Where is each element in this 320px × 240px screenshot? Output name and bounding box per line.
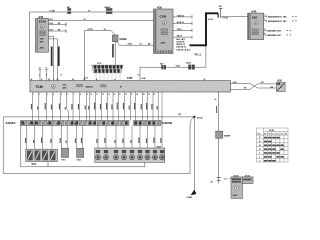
ground wire from strip left to bus [20, 126, 22, 167]
ECM U4/46 module box [36, 16, 49, 52]
svg-text:Y/B X: Y/B X [177, 29, 183, 31]
svg-text:471.1: 471.1 [194, 53, 201, 57]
ECM pin A14 wire down to TCM [48, 36, 53, 80]
svg-text:B15: B15 [49, 30, 52, 32]
svg-text:Pos: Pos [258, 133, 261, 135]
svg-text:S1: S1 [264, 133, 266, 135]
TCM bottom pin ticks and wires to S40 strip [33, 92, 159, 121]
svg-text:18: 18 [140, 44, 142, 46]
strip cell content marks [22, 121, 156, 124]
svg-text:A/56: A/56 [161, 42, 166, 45]
module 4/130 [231, 174, 242, 198]
svg-text:31/6B: 31/6B [187, 197, 193, 199]
TCM top pin labels [31, 75, 206, 81]
svg-text:L1: L1 [273, 133, 275, 135]
svg-text:54OLT: 54OLT [186, 62, 192, 65]
connector 16/39G [112, 35, 118, 42]
ring ground wire loop [3, 117, 194, 174]
TCM bottom pin numbers [33, 93, 155, 96]
wires strip to solenoid box 6/57 [98, 92, 162, 148]
ECM pin A7 wire down to TCM [48, 39, 57, 81]
svg-text:1/C06: 1/C06 [208, 19, 214, 21]
svg-text:S/T1: S/T1 [32, 164, 38, 166]
svg-text:9: 9 [87, 94, 88, 96]
svg-text:C/T x: C/T x [224, 179, 228, 181]
svg-text:10: 10 [90, 94, 92, 96]
CEM 4/56 module box [154, 6, 174, 53]
svg-text:31: 31 [45, 68, 47, 70]
ABS right pin row 2 [264, 20, 267, 23]
module left pin tick [229, 178, 231, 180]
svg-text:13: 13 [108, 94, 110, 96]
svg-text:A4/56-B: A4/56-B [86, 85, 94, 88]
ground stub from 6/57 [144, 162, 146, 167]
TCM top pin ticks [32, 79, 205, 81]
svg-text:11: 11 [96, 94, 98, 96]
svg-text:887: 887 [67, 7, 70, 9]
ground bus wire [21, 166, 145, 168]
connector pair 6/46LP on top wire [105, 6, 113, 14]
connector 8/40NF [216, 131, 223, 138]
svg-text:S4/2: S4/2 [160, 62, 164, 65]
vertical wire colour labels between TCM and S40 [31, 103, 158, 110]
wire 16/39G right to CEM [117, 42, 153, 46]
CEM right pin stub row 1 [173, 15, 192, 19]
ECM pin A21 wire to CEM [48, 19, 153, 21]
speed sensor 7/54 [77, 148, 84, 157]
solenoid box S/T1 [26, 149, 58, 166]
svg-text:4 SB: 4 SB [233, 81, 238, 84]
connector half C09 with off-page tick [219, 8, 223, 17]
svg-text:18: 18 [84, 19, 86, 21]
ground stub from S/T1 [47, 162, 49, 167]
feed branch down to S4 connectors [140, 45, 206, 80]
wire label Y/TD vertical [112, 44, 114, 58]
svg-text:16/39G: 16/39G [119, 39, 127, 41]
wire continues to connector [218, 138, 220, 183]
CEM right pin stub row 3 [173, 29, 192, 33]
svg-text:S1/S2: S1/S2 [269, 130, 274, 132]
svg-text:6: 6 [67, 94, 68, 96]
svg-text:A21: A21 [49, 18, 52, 21]
svg-text:GYTD: GYTD [88, 29, 94, 31]
wires TCM to 6/29 with crossover [231, 84, 277, 89]
svg-text:2: 2 [39, 75, 40, 77]
svg-text:21: 21 [154, 94, 156, 96]
connector pair C87 on top wire [67, 7, 71, 14]
svg-text:2: 2 [264, 19, 265, 21]
module 4/133 [242, 174, 253, 183]
svg-text:S40/6B: S40/6B [162, 121, 173, 125]
ring junction node [193, 116, 195, 118]
ECM pin B14 terminated stub [48, 24, 66, 26]
svg-text:12: 12 [102, 94, 104, 96]
svg-text:ABS/ABS/STC JB5: ABS/ABS/STC JB5 [268, 15, 287, 18]
wire top feed from TCM up and across to CEM [29, 12, 153, 81]
speed sensor 7/61 [62, 148, 69, 157]
svg-text:S2: S2 [268, 133, 270, 135]
svg-text:2: 2 [39, 94, 40, 96]
ABS right pin row 3 [264, 29, 266, 32]
svg-text:103N: 103N [176, 66, 181, 68]
ground 31/68 [191, 190, 197, 196]
wire label B/GEYB vertical [58, 47, 60, 67]
svg-text:A: A [41, 25, 43, 29]
svg-text:30: 30 [138, 75, 140, 77]
ABS 6/4B module box [248, 11, 264, 40]
svg-text:S40/6A: S40/6A [6, 121, 17, 125]
connector C65 trapezoid [92, 63, 124, 73]
svg-text:TCM: TCM [36, 85, 43, 89]
thick battery feed wire from CEM to C06 [190, 13, 219, 45]
svg-text:4/1: 4/1 [211, 180, 214, 183]
svg-text:A: A [53, 84, 55, 88]
ECM pin B15 terminated stub [48, 30, 66, 32]
wire label A/GEYB vertical [51, 47, 53, 67]
CEM right pin stub row 2 [173, 22, 192, 26]
svg-text:ABS/ABS JB5: ABS/ABS JB5 [267, 29, 282, 32]
connector pair S4/2 [160, 62, 166, 69]
svg-text:16: 16 [125, 94, 127, 96]
wires strip to solenoid box S/T1 [27, 126, 52, 150]
svg-text:18: 18 [136, 94, 138, 96]
CEM lower right pin net labels [176, 38, 191, 51]
connector pair 54OLT [186, 62, 195, 70]
solenoid box 6/57 [95, 147, 165, 163]
wire TCM pin up to 16/39G [85, 30, 116, 80]
svg-text:54/2 BN 30: 54/2 BN 30 [176, 46, 186, 49]
TCM stub wires with flat ends [39, 70, 42, 81]
svg-text:31: 31 [39, 68, 41, 70]
wires strip to sensor 7/54 [76, 126, 82, 149]
svg-text:ECM: ECM [39, 19, 46, 23]
svg-text:Y/DB 30: Y/DB 30 [177, 15, 184, 17]
svg-text:L3: L3 [281, 133, 283, 135]
svg-text:41: 41 [215, 98, 217, 101]
svg-text:12TD: 12TD [128, 44, 133, 46]
wire 16/39G down to C65 [114, 42, 116, 65]
svg-text:A: A [255, 22, 257, 25]
svg-text:47B: 47B [127, 76, 133, 80]
svg-text:SB 31: SB 31 [177, 36, 182, 38]
svg-text:6/46LP: 6/46LP [105, 6, 112, 9]
svg-text:L2: L2 [277, 133, 279, 135]
svg-text:A: A [164, 21, 166, 25]
svg-text:105: 105 [178, 114, 181, 116]
svg-text:3: 3 [264, 29, 265, 31]
svg-text:15: 15 [119, 94, 121, 96]
CEM right pin stub row 4 [173, 35, 192, 39]
svg-text:1: 1 [264, 15, 265, 17]
svg-text:F/C09: F/C09 [223, 18, 229, 20]
svg-text:17: 17 [131, 94, 133, 96]
sensor 6/29 [276, 81, 285, 92]
TCM 4/28 control module bar [30, 81, 231, 92]
svg-text:105: 105 [261, 82, 264, 84]
wires strip to sensor 7/61 [61, 126, 67, 149]
svg-text:B14: B14 [49, 22, 52, 25]
svg-text:18: 18 [104, 29, 106, 31]
svg-text:ABS/ABS JB7: ABS/ABS JB7 [267, 34, 282, 37]
svg-text:B4: B4 [148, 43, 150, 46]
ground wire down [193, 117, 195, 190]
svg-text:3: 3 [47, 94, 48, 96]
connector strip S40/6B segment [134, 121, 162, 126]
svg-text:A: A [236, 188, 238, 191]
vertical wire colour labels below strip [25, 138, 161, 144]
svg-text:53C06: 53C06 [197, 118, 203, 120]
C65 stubs to TCM bar [96, 73, 120, 81]
svg-text:8/40NF: 8/40NF [224, 135, 231, 138]
svg-text:4.56 RD +B 4.5x: 4.56 RD +B 4.5x [176, 48, 191, 51]
wire TCM pin down right side [218, 92, 220, 131]
svg-text:2 OB: 2 OB [50, 10, 56, 12]
wire C09 to ABS [221, 16, 248, 18]
svg-text:ABS/ABS/STC JB7: ABS/ABS/STC JB7 [268, 20, 287, 23]
ABS right pin row 4 [264, 34, 266, 37]
svg-text:20: 20 [148, 94, 150, 96]
svg-text:ABS: ABS [252, 15, 258, 19]
connector half C06 [217, 13, 219, 17]
svg-text:19: 19 [143, 94, 145, 96]
svg-text:BL/B 15: BL/B 15 [177, 22, 184, 24]
svg-text:1: 1 [53, 79, 54, 81]
ABS right pin row 1 [264, 15, 267, 18]
svg-text:CEM: CEM [160, 15, 167, 19]
